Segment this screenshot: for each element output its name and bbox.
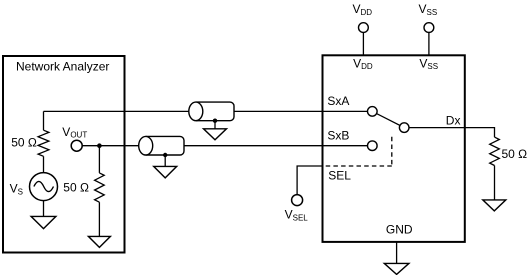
svg-text:SEL: SEL (328, 169, 351, 183)
node: VOUT junction dot (97, 143, 102, 148)
wire: load resistor to ground (494, 166, 496, 200)
wire: VS to ground (43, 201, 45, 217)
svg-text:Network Analyzer: Network Analyzer (16, 59, 109, 73)
wire: GND pin to ground (396, 242, 398, 263)
svg-text:VDD: VDD (353, 2, 373, 17)
coax cable (lower, to SxB) (139, 136, 184, 155)
wire: Dx output wire to load resistor (409, 128, 495, 138)
source VS (sine voltage source) (30, 173, 58, 201)
ground (GND pin) (384, 263, 409, 274)
ground (below Dx load resistor) (483, 200, 506, 211)
wire: R1 bottom to source VS (43, 156, 45, 173)
enclosure: Network Analyzer box (3, 56, 125, 253)
node: lower coax shield junction dot (163, 153, 167, 157)
resistor 50Ω (Dx load) (490, 137, 500, 165)
terminal VSS (open circle) (424, 23, 434, 33)
switch pole Dx (open circle) (399, 123, 409, 133)
svg-text:VSS: VSS (419, 56, 438, 71)
terminal VOUT (open circle) (71, 140, 82, 151)
svg-text:VSEL: VSEL (285, 208, 309, 223)
resistor 50Ω (shunt load in Network Analyzer) (95, 173, 105, 202)
wire: VSS terminal to box (428, 33, 430, 55)
svg-text:GND: GND (386, 223, 413, 237)
svg-text:SxB: SxB (327, 129, 349, 143)
ground (lower coax shield) (154, 166, 177, 178)
node: upper coax shield junction dot (213, 119, 217, 123)
svg-text:50 Ω: 50 Ω (11, 136, 37, 150)
terminal VDD (open circle) (359, 23, 369, 33)
svg-text:VSS: VSS (419, 2, 438, 17)
resistor 50Ω (series source resistor, in Network Analyzer) (38, 130, 49, 156)
svg-text:VOUT: VOUT (62, 125, 87, 140)
svg-text:Dx: Dx (446, 114, 461, 128)
wire: SEL control dashed link (vertical from switch) (391, 137, 393, 166)
wire: junction down to shunt resistor (98, 146, 100, 173)
svg-text:SxA: SxA (327, 94, 349, 108)
svg-text:50 Ω: 50 Ω (63, 180, 89, 194)
switch: pole throw bar SxA to Dx (372, 111, 404, 127)
wire: SEL control dashed link (horizontal to SEL pin) (323, 165, 392, 167)
enclosure: switch device box (323, 55, 465, 242)
wire: upper coax shield to ground (214, 121, 216, 129)
wire: vertical drop from corner into resistor R1 (43, 111, 45, 130)
svg-text:50 Ω: 50 Ω (502, 147, 528, 161)
switch contact SxA (open circle) (368, 107, 378, 117)
wire: VDD terminal to box (362, 33, 364, 55)
wire: shunt resistor to ground (98, 202, 100, 236)
terminal VSEL (open circle) (292, 195, 303, 206)
coax cable (upper, to SxA) (189, 102, 234, 121)
svg-text:VS: VS (10, 181, 23, 196)
ground (below shunt resistor) (88, 236, 110, 247)
wire: source top wire from R1 corner to SxA contact (44, 110, 368, 112)
wire: lower coax shield to ground (164, 155, 166, 166)
wire: SEL pin to VSEL terminal (297, 166, 322, 195)
wire: VOUT wire from VOUT terminal to SxB contact (77, 145, 368, 147)
switch contact SxB (open circle) (368, 141, 378, 151)
ground (below VS) (31, 216, 56, 228)
ground (upper coax shield) (204, 129, 227, 140)
svg-text:VDD: VDD (353, 56, 373, 71)
